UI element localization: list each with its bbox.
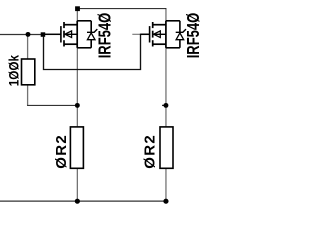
svg-text:1ØØk: 1ØØk <box>7 54 22 86</box>
svg-text:ØR2: ØR2 <box>53 134 70 169</box>
svg-text:IRF54Ø: IRF54Ø <box>184 13 203 58</box>
svg-text:IRF54Ø: IRF54Ø <box>96 13 115 58</box>
svg-text:ØR2: ØR2 <box>142 134 159 169</box>
